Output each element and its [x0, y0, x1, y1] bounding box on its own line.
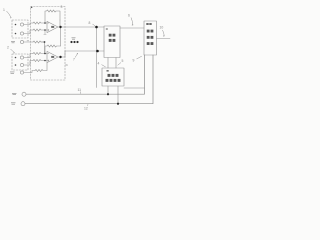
- U2 input node dots: [44, 53, 46, 55]
- node dot row3 junction: [44, 41, 46, 43]
- op-amp U2 inner label blob: [51, 56, 54, 58]
- wire mux stub left to controller: [107, 58, 109, 69]
- wire row2 terminal to R2: [24, 30, 33, 34]
- U2 output junction dot: [59, 56, 61, 58]
- dashed box sensor group 1: [12, 20, 28, 38]
- rail2 junction dot: [117, 103, 119, 105]
- resistor R5: [33, 59, 47, 61]
- power terminal circle 2: [21, 102, 25, 106]
- bus junction dot top: [95, 26, 98, 29]
- svg-text:1: 1: [3, 8, 5, 12]
- U1 output junction dot: [59, 26, 61, 28]
- wire row5 terminal to R5: [24, 61, 33, 66]
- op-amp U2: [47, 51, 58, 62]
- svg-text:7: 7: [73, 58, 75, 62]
- power rail 1: [26, 55, 144, 94]
- power terminal mark 2: [11, 103, 16, 104]
- converter box label text: [146, 23, 153, 45]
- feedback resistor Rf1: [45, 10, 60, 23]
- svg-text:2: 2: [7, 46, 9, 50]
- terminal dot row5: [15, 64, 17, 66]
- wire controller leg to rail1: [107, 86, 109, 94]
- wire U2 output jog up: [58, 51, 104, 57]
- terminal mark row6: [10, 72, 15, 73]
- resistor R2: [33, 29, 47, 31]
- svg-text:10: 10: [160, 26, 164, 30]
- terminal dot row4: [15, 57, 17, 59]
- wire row3 terminal to R3: [24, 41, 33, 43]
- resistor R3: [33, 41, 44, 43]
- op-amp U1 inner label blob: [51, 26, 54, 28]
- power rail 2: [25, 55, 153, 104]
- wire row6 terminal to R6: [24, 71, 35, 73]
- controller box: [102, 68, 124, 86]
- svg-text:3: 3: [61, 5, 63, 9]
- bus vertical to controller: [96, 27, 98, 88]
- resistor R4: [33, 52, 47, 54]
- mux box label text: [109, 34, 116, 42]
- small mark near row3: [27, 40, 29, 42]
- wire mux stub right to controller: [115, 58, 117, 69]
- svg-text:4: 4: [98, 62, 100, 66]
- terminal mark row3: [11, 41, 15, 42]
- wire row3 node down to U2 inverting input: [44, 42, 47, 54]
- power terminal mark 1: [12, 93, 17, 94]
- channel ellipsis dots: [70, 41, 72, 43]
- terminal circle row1: [20, 23, 23, 26]
- wire row1 terminal to R1: [24, 23, 33, 25]
- dashed box sensor group 2: [12, 54, 28, 70]
- terminal circle row5: [20, 63, 23, 66]
- svg-text:5: 5: [122, 59, 124, 63]
- bus junction dot bottom: [96, 50, 99, 53]
- wire row3 stub: [41, 41, 45, 43]
- wire U1 output to mux: [58, 26, 104, 28]
- power terminal circle 1: [22, 92, 26, 96]
- mux box inner corner mark: [106, 28, 108, 29]
- dashed box amplifier section: [31, 7, 66, 81]
- wire controller leg to rail2: [117, 86, 119, 104]
- op-amp U1 polarity marks: [48, 23, 50, 31]
- terminal circle row6: [20, 71, 23, 74]
- controller box label text: [106, 70, 121, 82]
- wire U1 noninverting ground stub: [44, 31, 46, 35]
- amp box corner dot: [31, 7, 33, 9]
- wire controller link to converter vertical: [124, 87, 145, 89]
- wire op1 feedback to output node: [59, 20, 61, 27]
- terminal dot row1: [15, 24, 17, 26]
- svg-text:9: 9: [133, 59, 135, 63]
- svg-text:12: 12: [84, 107, 88, 111]
- converter box: [144, 21, 157, 55]
- wire converter output: [157, 38, 171, 40]
- channel ellipsis label: [72, 38, 76, 39]
- wire mux to converter: [120, 27, 144, 29]
- svg-text:6: 6: [128, 14, 130, 18]
- op-amp U2 polarity marks: [48, 54, 50, 62]
- feedback resistor Rf2: [45, 45, 61, 54]
- resistor R6: [35, 63, 47, 72]
- wire U1 output down to Rf2 node: [60, 27, 62, 46]
- U1 input node dots: [44, 22, 46, 24]
- terminal dot row2: [15, 33, 17, 35]
- rail1 junction dot: [107, 93, 109, 95]
- multiplexer box: [104, 26, 120, 58]
- svg-text:8: 8: [89, 21, 91, 25]
- terminal circle row2: [20, 32, 23, 35]
- op-amp U1: [47, 21, 58, 32]
- wire row4 terminal to R4: [24, 54, 33, 58]
- terminal circle row4: [20, 56, 23, 59]
- terminal circle row3: [20, 40, 23, 43]
- resistor R1: [33, 22, 47, 24]
